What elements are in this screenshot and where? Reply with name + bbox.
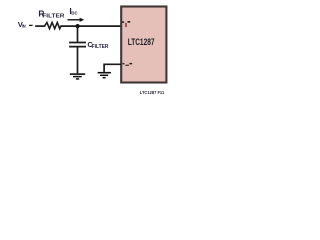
label figure tag LTC1287 F11 bbox=[140, 90, 165, 95]
resistor RFILTER bbox=[45, 23, 61, 29]
wire VIN stub bbox=[29, 24, 33, 26]
svg-text:LTC1287 F11: LTC1287 F11 bbox=[140, 90, 165, 95]
label LTC1287 bbox=[128, 36, 155, 47]
label RFILTER bbox=[38, 8, 64, 19]
pin label -IN bbox=[123, 63, 133, 66]
node VIN label bbox=[18, 20, 26, 29]
pin label +IN bbox=[122, 21, 130, 27]
wire resistor to U1 bbox=[60, 25, 121, 27]
ground (capacitor) bbox=[70, 74, 85, 79]
svg-text:LTC1287: LTC1287 bbox=[128, 36, 155, 47]
svg-text:FILTER: FILTER bbox=[92, 44, 109, 50]
svg-text:IN: IN bbox=[22, 24, 27, 29]
svg-text:FILTER: FILTER bbox=[42, 14, 64, 20]
IC U1 LTC1287 box bbox=[121, 7, 166, 83]
current arrow IDC bbox=[68, 18, 85, 22]
junction node bbox=[76, 24, 80, 28]
label IDC bbox=[69, 6, 78, 16]
svg-text:DC: DC bbox=[71, 10, 78, 16]
wire VIN to resistor bbox=[35, 25, 45, 27]
capacitor CFILTER bbox=[69, 26, 86, 73]
label CFILTER bbox=[87, 40, 108, 50]
wire -IN to ground bbox=[104, 64, 121, 72]
ground (-IN) bbox=[98, 73, 111, 78]
